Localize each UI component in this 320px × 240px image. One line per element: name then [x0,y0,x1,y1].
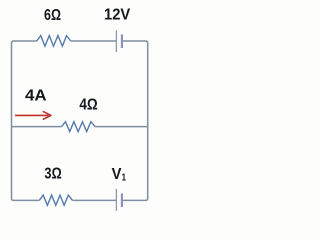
svg-text:6Ω: 6Ω [44,7,61,24]
svg-text:12V: 12V [104,7,131,24]
svg-text:4A: 4A [25,88,47,105]
svg-text:1: 1 [122,172,127,183]
svg-text:4Ω: 4Ω [79,96,98,113]
svg-text:3Ω: 3Ω [44,166,62,183]
svg-text:V: V [112,166,122,183]
